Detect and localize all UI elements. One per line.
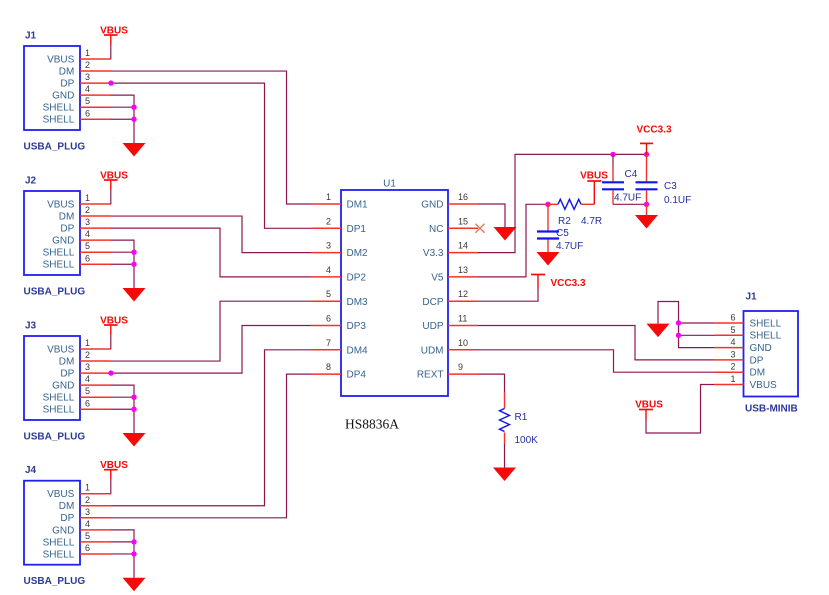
connector J1 USB-MINIB xyxy=(714,292,798,415)
svg-text:DP: DP xyxy=(60,79,74,90)
wire J4 GND/SHELL tie xyxy=(111,530,134,578)
svg-text:DP3: DP3 xyxy=(347,321,367,332)
svg-text:7: 7 xyxy=(326,338,331,348)
svg-text:DM: DM xyxy=(59,501,75,512)
svg-text:J1: J1 xyxy=(746,292,758,303)
svg-text:1: 1 xyxy=(85,483,90,493)
label R1 value xyxy=(515,435,539,446)
capacitor C4 xyxy=(602,154,624,204)
wire R1 to ground xyxy=(504,444,506,468)
svg-text:2: 2 xyxy=(85,60,90,70)
svg-text:3: 3 xyxy=(85,507,90,517)
svg-text:VBUS: VBUS xyxy=(47,54,75,65)
svg-text:UDP: UDP xyxy=(422,321,443,332)
svg-text:4: 4 xyxy=(85,84,90,94)
svg-text:4: 4 xyxy=(326,265,331,275)
svg-text:0.1UF: 0.1UF xyxy=(664,195,691,206)
svg-text:6: 6 xyxy=(85,398,90,408)
junction J1 shell xyxy=(131,105,136,122)
svg-text:3: 3 xyxy=(326,241,331,251)
wire J2 pin1 to VBUS xyxy=(110,190,112,204)
svg-text:2: 2 xyxy=(730,362,735,372)
wire J1 DP to U1 DP1 xyxy=(111,83,311,228)
label C4 xyxy=(625,169,638,180)
power flag VCC3.3 (top) xyxy=(636,125,671,155)
svg-text:1: 1 xyxy=(326,192,331,202)
label C3 value xyxy=(664,195,691,206)
wire J2 DM to U1 DM2 xyxy=(111,216,311,253)
svg-text:DP4: DP4 xyxy=(347,370,367,381)
wire J1 pin1 to VBUS xyxy=(110,45,112,59)
svg-text:5: 5 xyxy=(85,386,90,396)
svg-text:C5: C5 xyxy=(556,228,569,239)
svg-text:R1: R1 xyxy=(515,412,528,423)
svg-text:13: 13 xyxy=(458,265,468,275)
svg-text:2: 2 xyxy=(326,216,331,226)
svg-text:12: 12 xyxy=(458,289,468,299)
wire J3 pin1 to VBUS xyxy=(110,335,112,349)
svg-text:DP: DP xyxy=(60,369,74,380)
wire VBUS to MINIB pin1 xyxy=(646,385,714,434)
svg-text:4.7UF: 4.7UF xyxy=(614,193,641,204)
svg-text:2: 2 xyxy=(85,495,90,505)
wire J2 GND/SHELL tie xyxy=(111,240,134,288)
svg-text:R2: R2 xyxy=(558,216,571,227)
svg-text:SHELL: SHELL xyxy=(43,549,75,560)
svg-text:15: 15 xyxy=(458,216,468,226)
label C5 value xyxy=(556,241,583,252)
label R2 xyxy=(558,216,571,227)
wire J1 GND/SHELL tie xyxy=(111,95,134,143)
svg-text:1: 1 xyxy=(730,374,735,384)
wire J4 pin1 to VBUS xyxy=(110,480,112,494)
wire J4 DP to U1 DP4 xyxy=(111,374,311,518)
junction J3 shell xyxy=(131,395,136,412)
svg-text:SHELL: SHELL xyxy=(43,393,75,404)
svg-text:GND: GND xyxy=(52,236,74,247)
wire J3 GND/SHELL tie xyxy=(111,385,134,433)
svg-text:USBA_PLUG: USBA_PLUG xyxy=(24,432,86,443)
svg-text:DM: DM xyxy=(59,211,75,222)
svg-text:GND: GND xyxy=(52,525,74,536)
svg-text:SHELL: SHELL xyxy=(43,405,75,416)
wire U1 pin11 UDP to J1 DP xyxy=(478,326,714,360)
svg-text:3: 3 xyxy=(85,362,90,372)
connector J1 USBA_PLUG xyxy=(24,31,112,153)
power flag VBUS at J1 pin 1 xyxy=(100,25,128,45)
label C4 value xyxy=(614,193,641,204)
svg-text:VBUS: VBUS xyxy=(580,171,608,182)
svg-text:USBA_PLUG: USBA_PLUG xyxy=(24,287,86,298)
svg-text:C3: C3 xyxy=(664,181,677,192)
svg-text:5: 5 xyxy=(85,241,90,251)
wire C4 bottom to C3 bottom xyxy=(613,203,647,205)
svg-text:C4: C4 xyxy=(625,169,638,180)
junction V3.3 rail at C4 xyxy=(610,152,615,157)
connector J3 USBA_PLUG xyxy=(24,321,112,443)
svg-text:3: 3 xyxy=(730,349,735,359)
wire J1 DM to U1 DM1 xyxy=(111,71,311,204)
svg-text:DM3: DM3 xyxy=(347,297,369,308)
svg-text:4.7R: 4.7R xyxy=(581,216,602,227)
ground R1 xyxy=(493,468,516,482)
svg-text:1: 1 xyxy=(85,338,90,348)
junction J4 shell xyxy=(131,539,136,556)
ground J1 xyxy=(123,143,146,157)
svg-text:DM: DM xyxy=(59,356,75,367)
svg-text:GND: GND xyxy=(750,343,772,354)
svg-text:DM2: DM2 xyxy=(347,248,369,259)
connector J4 USBA_PLUG xyxy=(24,465,112,587)
wire U1 pin16 GND xyxy=(478,204,505,227)
power flag VBUS at J4 pin 1 xyxy=(100,460,128,480)
wire U1 pin12 DCP xyxy=(478,289,538,301)
svg-text:V3.3: V3.3 xyxy=(423,248,444,259)
svg-text:UDM: UDM xyxy=(421,345,444,356)
label R2 value xyxy=(581,216,602,227)
wire J3 DP to U1 DP3 xyxy=(111,326,311,374)
wire U1 pin9 REXT to R1 xyxy=(478,374,505,392)
svg-text:VBUS: VBUS xyxy=(47,489,75,500)
svg-text:6: 6 xyxy=(730,313,735,323)
resistor R2 xyxy=(548,199,594,209)
power flag VBUS at J2 pin 1 xyxy=(100,170,128,190)
svg-text:16: 16 xyxy=(458,192,468,202)
svg-text:100K: 100K xyxy=(515,435,539,446)
svg-text:5: 5 xyxy=(326,289,331,299)
svg-text:DP: DP xyxy=(60,513,74,524)
wire USB-MINIB shell/gnd tie xyxy=(658,302,714,348)
svg-text:SHELL: SHELL xyxy=(750,331,782,342)
ground U1 GND xyxy=(494,227,517,241)
junction V3.3 rail at C3 xyxy=(644,152,649,157)
svg-text:SHELL: SHELL xyxy=(750,318,782,329)
svg-text:4: 4 xyxy=(85,519,90,529)
svg-text:DP: DP xyxy=(750,355,764,366)
svg-text:VCC3.3: VCC3.3 xyxy=(636,125,671,136)
power flag VBUS at J3 pin 1 xyxy=(100,315,128,335)
svg-text:DM4: DM4 xyxy=(347,345,369,356)
svg-text:HS8836A: HS8836A xyxy=(345,417,399,432)
svg-text:DP1: DP1 xyxy=(347,224,367,235)
ground C5 xyxy=(537,252,560,266)
capacitor C3 xyxy=(636,154,658,204)
svg-text:10: 10 xyxy=(458,338,468,348)
ground J3 xyxy=(123,433,146,447)
svg-text:J1: J1 xyxy=(25,31,37,42)
svg-text:3: 3 xyxy=(85,217,90,227)
junction MINIB shell xyxy=(676,320,681,338)
svg-text:DP2: DP2 xyxy=(347,273,367,284)
svg-text:VBUS: VBUS xyxy=(750,380,778,391)
svg-text:DP: DP xyxy=(60,224,74,235)
svg-text:6: 6 xyxy=(85,543,90,553)
svg-text:J4: J4 xyxy=(25,465,37,476)
svg-text:4.7UF: 4.7UF xyxy=(556,241,583,252)
label U1 part number xyxy=(345,417,399,432)
wire J3 DM to U1 DM3 xyxy=(111,301,311,361)
svg-text:SHELL: SHELL xyxy=(43,537,75,548)
label R1 xyxy=(515,412,528,423)
svg-text:GND: GND xyxy=(52,381,74,392)
svg-text:J3: J3 xyxy=(25,321,37,332)
wire U1 pin10 UDM to J1 DM xyxy=(478,350,714,372)
svg-text:REXT: REXT xyxy=(417,370,444,381)
junction C3 bottom xyxy=(644,202,649,207)
wire J4 DM to U1 DM4 xyxy=(111,350,311,506)
svg-text:6: 6 xyxy=(85,253,90,263)
svg-text:USBA_PLUG: USBA_PLUG xyxy=(24,576,86,587)
svg-text:6: 6 xyxy=(326,314,331,324)
svg-text:VCC3.3: VCC3.3 xyxy=(551,278,586,289)
ground J2 xyxy=(123,288,146,302)
power flag VBUS at USB-MINIB xyxy=(635,400,663,421)
svg-text:USBA_PLUG: USBA_PLUG xyxy=(24,142,86,153)
svg-text:1: 1 xyxy=(85,193,90,203)
svg-text:U1: U1 xyxy=(383,179,396,190)
svg-text:1: 1 xyxy=(85,48,90,58)
wire U1 pin14 V3.3 to VCC3.3 rail xyxy=(478,154,647,252)
svg-text:DM: DM xyxy=(59,66,75,77)
junction J2 shell xyxy=(131,250,136,267)
ground J4 xyxy=(123,578,146,592)
ground C3/C4 xyxy=(635,215,658,229)
svg-text:8: 8 xyxy=(326,362,331,372)
svg-text:GND: GND xyxy=(52,91,74,102)
power flag VBUS at R2 xyxy=(580,171,608,205)
resistor R1 xyxy=(500,392,510,444)
junction J3 DP xyxy=(108,370,113,375)
label C5 xyxy=(556,228,569,239)
svg-text:14: 14 xyxy=(458,241,468,251)
svg-text:5: 5 xyxy=(730,325,735,335)
svg-text:SHELL: SHELL xyxy=(43,103,75,114)
svg-text:4: 4 xyxy=(730,337,735,347)
svg-text:USB-MINIB: USB-MINIB xyxy=(745,404,798,415)
svg-text:VBUS: VBUS xyxy=(47,199,75,210)
svg-text:DM: DM xyxy=(750,368,766,379)
svg-text:2: 2 xyxy=(85,350,90,360)
no-connect x on U1 pin 15 xyxy=(476,224,485,233)
connector J2 USBA_PLUG xyxy=(24,176,112,298)
svg-text:2: 2 xyxy=(85,205,90,215)
junction J1 DP xyxy=(108,80,113,85)
svg-text:J2: J2 xyxy=(25,176,37,187)
svg-text:DCP: DCP xyxy=(422,297,443,308)
svg-text:5: 5 xyxy=(85,531,90,541)
svg-text:GND: GND xyxy=(421,200,443,211)
svg-text:VBUS: VBUS xyxy=(47,344,75,355)
svg-text:SHELL: SHELL xyxy=(43,248,75,259)
capacitor C5 xyxy=(537,204,559,252)
svg-text:11: 11 xyxy=(458,314,467,324)
IC U1 HS8836A hub controller xyxy=(311,179,478,397)
svg-text:SHELL: SHELL xyxy=(43,260,75,271)
svg-text:9: 9 xyxy=(458,362,463,372)
svg-text:4: 4 xyxy=(85,229,90,239)
svg-text:DM1: DM1 xyxy=(347,200,369,211)
power flag VCC3.3 at DCP xyxy=(531,275,586,290)
svg-text:V5: V5 xyxy=(431,273,444,284)
svg-text:3: 3 xyxy=(85,72,90,82)
label C3 xyxy=(664,181,677,192)
svg-text:5: 5 xyxy=(85,96,90,106)
svg-text:4: 4 xyxy=(85,374,90,384)
svg-text:NC: NC xyxy=(429,224,443,235)
svg-text:6: 6 xyxy=(85,108,90,118)
wire C3 bottom to ground xyxy=(646,204,648,215)
wire U1 pin13 V5 xyxy=(478,204,548,277)
ground USB-MINIB xyxy=(647,324,670,338)
wire J2 DP to U1 DP2 xyxy=(111,228,311,277)
svg-text:SHELL: SHELL xyxy=(43,115,75,126)
junction V5/R2/C5 xyxy=(545,202,550,207)
